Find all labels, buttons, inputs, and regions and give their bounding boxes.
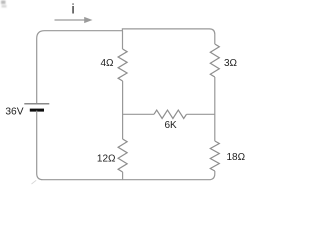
battery V1 36V: short thick (negative) plate — [30, 109, 44, 112]
wire: resistor 6K to node C — [187, 113, 215, 115]
wire: battery + terminal up left side and along top to node A — [37, 31, 123, 104]
wire: top rail from node A to top-right corner, down to resistor 3Ω — [122, 29, 214, 44]
resistor R1 4Ω (zigzag) — [118, 49, 127, 81]
svg-text:12Ω: 12Ω — [97, 153, 116, 164]
wire: resistor 18Ω to bottom-right corner and bottom rail to node B bottom — [122, 171, 214, 180]
svg-text:3Ω: 3Ω — [224, 58, 238, 69]
battery V1 36V: long (positive) plate — [24, 103, 49, 105]
svg-text:6K: 6K — [164, 120, 177, 131]
svg-text:i: i — [71, 1, 74, 17]
wire: middle rail node B to resistor 6K — [123, 113, 154, 115]
resistor R4 6K (zigzag) — [154, 110, 187, 118]
wire: resistor 12Ω to bottom rail — [122, 172, 124, 180]
wire: resistor 3Ω down right side to resistor 18Ω through node C — [214, 77, 216, 141]
resistor R5 18Ω (zigzag) — [210, 141, 219, 171]
node C (junction of right branch and 6K rail) — [0, 0, 1, 1]
svg-text:36V: 36V — [5, 107, 23, 118]
svg-text:4Ω: 4Ω — [100, 58, 114, 69]
corner artifact (faint smudge, top-left) — [1, 1, 7, 8]
resistor R2 3Ω (zigzag) — [210, 44, 219, 77]
resistor R3 12Ω (zigzag) — [118, 139, 127, 172]
current direction arrow — [55, 17, 93, 23]
node B (junction of middle branch and 6K rail) — [0, 0, 1, 1]
wire: battery - terminal down left side and along bottom rail to node B bottom — [37, 111, 123, 180]
wire: resistor 4Ω to resistor 12Ω through node B — [122, 81, 124, 139]
svg-text:18Ω: 18Ω — [227, 152, 246, 163]
wire: node A down to resistor 4Ω — [122, 31, 124, 49]
corner artifact (faint diagonal, bottom-left) — [32, 180, 37, 184]
